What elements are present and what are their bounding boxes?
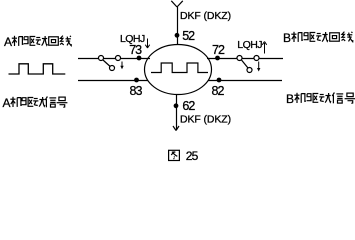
node 52 junction dot (175, 33, 180, 38)
fork symbol (Y) at top (171, 1, 183, 7)
contact LQHJ(left): blade to back contact (103, 60, 110, 67)
label LQHJ (right) with up arrow (237, 39, 266, 54)
relay/coil ellipse DKF (145, 45, 212, 95)
svg-text:DKF (DKZ): DKF (DKZ) (180, 10, 231, 22)
svg-text:83: 83 (130, 84, 143, 98)
node 82 junction dot (217, 78, 222, 83)
svg-text:73: 73 (129, 43, 142, 57)
label "B机驱动信号" (B-machine drive signal) (286, 92, 355, 106)
node 62 junction dot (174, 103, 179, 108)
label LQHJ (left) with down arrow (120, 33, 150, 48)
contact LQHJ(left): front contact circle (116, 56, 121, 61)
svg-text:B: B (283, 31, 291, 45)
svg-text:62: 62 (182, 99, 195, 113)
node 83 junction dot (134, 78, 139, 83)
wire: top-right horizontal (207, 58, 283, 60)
waveform inside coil (151, 63, 208, 73)
label "B机驱动回线" (B-machine drive return line) (283, 31, 353, 45)
contact LQHJ(left): back contact circle (110, 66, 115, 71)
contact LQHJ(left): pivot circle (99, 56, 104, 61)
svg-text:52: 52 (182, 29, 195, 43)
arrow head down (173, 126, 179, 131)
svg-text:A: A (3, 96, 11, 110)
svg-text:72: 72 (212, 43, 225, 57)
label "A机驱动信号" (A-machine drive signal) (3, 96, 68, 110)
contact LQHJ(right): back contact circle (247, 68, 252, 73)
figure caption 图 25 (169, 149, 199, 163)
wire: bottom vertical with arrow to DKF(DKZ) (176, 95, 178, 131)
contact LQHJ(right): pivot circle (237, 56, 242, 61)
node 73 junction dot (137, 56, 142, 61)
svg-text:DKF (DKZ): DKF (DKZ) (180, 114, 231, 126)
svg-text:LQHJ: LQHJ (237, 39, 262, 51)
svg-text:B: B (286, 92, 294, 106)
contact LQHJ(left): motion arrow (120, 62, 123, 70)
wire: top-left horizontal (78, 58, 150, 60)
contact LQHJ(right): front contact circle (254, 56, 259, 61)
svg-text:82: 82 (212, 84, 225, 98)
svg-text:A: A (4, 35, 12, 49)
contact LQHJ(right): motion arrow (257, 62, 260, 72)
contact LQHJ(right): blade to back contact (242, 60, 249, 68)
label "A机驱动回线" (A-machine drive return line) (4, 35, 71, 49)
waveform A drive signal (square wave) (9, 64, 66, 74)
node 72 junction dot (215, 56, 220, 61)
svg-text:25: 25 (186, 149, 199, 163)
wire: bottom-right horizontal (209, 80, 283, 82)
wire: top vertical to DKF(DKZ) (177, 7, 179, 45)
wire: bottom-left horizontal (78, 80, 148, 82)
